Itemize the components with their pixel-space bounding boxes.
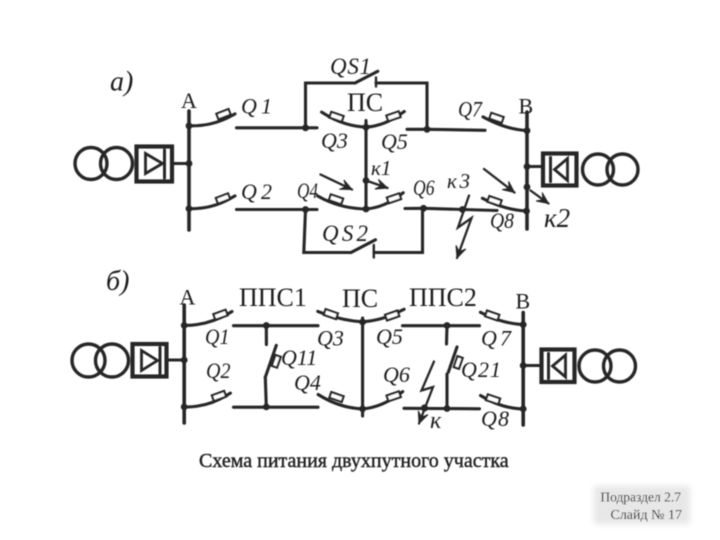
node PS top: [363, 124, 370, 131]
node k3: [459, 206, 466, 213]
transformer T1: [75, 148, 107, 180]
svg-text:Q5: Q5: [381, 129, 408, 154]
breaker Q6 (b): [363, 391, 403, 409]
wire Q1 to PS left junction: [237, 126, 306, 129]
svg-text:B: B: [516, 289, 531, 314]
breaker Q3: [306, 112, 367, 128]
node bus B track1 (b): [520, 321, 527, 328]
breaker Q7 (b): [480, 311, 523, 325]
svg-text:B: B: [519, 94, 534, 119]
node bus B track2 (b): [520, 406, 527, 413]
svg-text:Q6: Q6: [383, 362, 410, 387]
node PPS1 top: [263, 322, 270, 329]
wire track2 left (b): [234, 406, 319, 409]
svg-text:ППС2: ППС2: [409, 283, 477, 312]
svg-text:Q5: Q5: [376, 324, 403, 349]
svg-text:к2: к2: [544, 203, 570, 233]
svg-text:к3: к3: [447, 169, 470, 193]
disconnector QS2: [304, 208, 423, 257]
svg-text:Слайд № 17: Слайд № 17: [610, 508, 682, 523]
short-circuit k1: [321, 175, 388, 190]
node PS bottom (b): [359, 406, 366, 413]
short-circuit k: [418, 362, 434, 424]
wire track1 PS to Q7: [427, 129, 485, 130]
transformer T3: [72, 344, 105, 377]
wire rectifier U1 to bus A: [172, 162, 189, 165]
node bus A rectifier (b): [181, 357, 188, 364]
node PS top (b): [359, 319, 366, 326]
wire track2 right (b): [404, 407, 480, 411]
node PPS2 bottom: [444, 405, 451, 412]
svg-text:Схема питания двухпутного учас: Схема питания двухпутного участка: [199, 450, 509, 472]
breaker Q4 (b): [318, 392, 363, 409]
wire track2 to Q8: [424, 208, 498, 210]
wire Q2 to QS2 left junction: [237, 208, 306, 211]
node track2 left: [302, 206, 309, 213]
svg-text:а): а): [110, 67, 133, 98]
switch Q21: [447, 326, 463, 409]
wire bus B to rectifier U2: [527, 165, 543, 168]
breaker Q6: [366, 193, 424, 209]
svg-text:Q1: Q1: [241, 94, 272, 119]
breaker Q8 (b): [481, 394, 524, 409]
svg-text:Q6: Q6: [413, 175, 435, 200]
node track1 left of PS: [302, 124, 309, 131]
svg-text:Q7: Q7: [481, 326, 512, 351]
svg-text:Q1: Q1: [205, 324, 230, 349]
svg-text:Q2: Q2: [241, 179, 272, 204]
svg-text:Q8: Q8: [481, 406, 509, 431]
node PPS1 bottom: [263, 404, 270, 411]
breaker Q7: [483, 113, 527, 131]
svg-text:ПС: ПС: [342, 284, 378, 313]
svg-text:QS1: QS1: [330, 54, 371, 79]
breaker Q3 (b): [318, 309, 363, 322]
rectifier U4: [542, 350, 575, 383]
wire track1 left (b): [234, 324, 319, 327]
PS centre line (b): [361, 318, 364, 416]
svg-text:A: A: [180, 285, 196, 310]
node track2 QS2 right: [420, 205, 427, 212]
breaker Q2: [186, 193, 235, 212]
svg-text:Q3: Q3: [317, 326, 344, 351]
svg-text:Подраздел 2.7: Подраздел 2.7: [600, 490, 681, 505]
breaker Q5 (b): [363, 309, 405, 322]
svg-text:Q4: Q4: [294, 370, 321, 395]
bus B: [525, 112, 529, 229]
node bus A / rectifier: [186, 160, 193, 167]
svg-text:ППС1: ППС1: [239, 283, 307, 312]
svg-text:Q21: Q21: [461, 357, 501, 382]
switch Q11: [265, 326, 280, 407]
node bus B rectifier (b): [520, 362, 527, 369]
rectifier U1: [137, 147, 173, 182]
breaker Q4: [306, 194, 367, 209]
node bus B track2: [523, 208, 530, 215]
short-circuit k2: [484, 169, 549, 204]
node PS bottom: [363, 206, 370, 213]
svg-text:Q8: Q8: [490, 208, 514, 233]
svg-text:к: к: [430, 408, 442, 434]
breaker Q1 (b): [181, 310, 232, 329]
breaker Q5: [366, 111, 427, 129]
bus A: [187, 111, 191, 230]
svg-text:ПС: ПС: [347, 88, 383, 117]
bus B (b): [521, 313, 525, 425]
transformer T2: [583, 154, 614, 185]
wire rectifier U3 to bus A: [167, 358, 185, 361]
svg-text:Q7: Q7: [458, 97, 483, 122]
svg-text:Q3: Q3: [321, 128, 348, 153]
disconnector QS1: [306, 71, 428, 129]
short-circuit k3: [456, 196, 472, 259]
node track1 right of PS: [424, 126, 431, 133]
rectifier U3: [133, 344, 167, 377]
bus A (b): [182, 305, 186, 423]
svg-text:Q11: Q11: [281, 345, 317, 370]
scan shading behind footer: [594, 486, 690, 524]
wire bus B to rectifier U4: [523, 364, 541, 367]
svg-text:Q4: Q4: [297, 178, 318, 203]
transformer T4: [579, 350, 611, 382]
node bus B rectifier: [524, 163, 531, 170]
breaker Q8: [482, 196, 526, 211]
PS centre line: [364, 121, 367, 210]
svg-text:QS2: QS2: [322, 221, 368, 246]
wire track1 right (b): [403, 324, 480, 327]
svg-text:к1: к1: [371, 156, 391, 180]
svg-text:б): б): [106, 266, 129, 297]
rectifier U2: [543, 154, 577, 186]
svg-text:A: A: [181, 88, 197, 113]
node k crossing: [421, 404, 428, 411]
breaker Q1: [186, 109, 235, 129]
node bus B track1: [524, 127, 531, 134]
breaker Q2 (b): [181, 391, 231, 410]
svg-text:Q2: Q2: [206, 358, 231, 383]
node PPS2 top: [444, 322, 451, 329]
